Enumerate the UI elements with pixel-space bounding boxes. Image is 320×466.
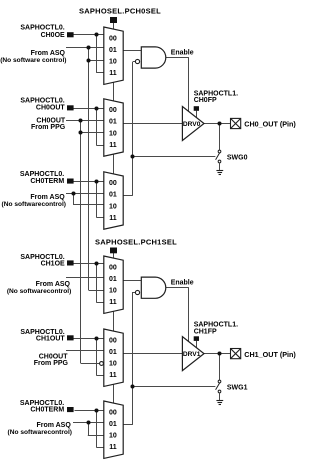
svg-text:10: 10	[109, 288, 117, 295]
svg-text:10: 10	[109, 59, 117, 66]
svg-text:00: 00	[109, 409, 117, 416]
svg-text:11: 11	[109, 215, 117, 222]
svg-text:10: 10	[109, 433, 117, 440]
svg-text:(No softwarecontrol): (No softwarecontrol)	[7, 288, 71, 295]
svg-text:11: 11	[109, 299, 117, 306]
svg-text:CH1_OUT (Pin): CH1_OUT (Pin)	[244, 350, 296, 359]
svg-text:From PPG: From PPG	[34, 360, 69, 367]
svg-text:CH1OE: CH1OE	[41, 260, 65, 267]
svg-text:From ASQ: From ASQ	[31, 50, 66, 57]
svg-text:01: 01	[109, 192, 117, 199]
svg-text:00: 00	[109, 337, 117, 344]
svg-text:CH0FP: CH0FP	[194, 97, 217, 104]
svg-text:(No software control): (No software control)	[0, 57, 66, 64]
svg-text:SWG1: SWG1	[227, 384, 248, 391]
svg-text:CH0TERM: CH0TERM	[30, 178, 64, 185]
svg-text:10: 10	[109, 361, 117, 368]
svg-text:00: 00	[109, 107, 117, 114]
svg-text:SWG0: SWG0	[227, 154, 248, 161]
svg-text:DRV1: DRV1	[183, 351, 201, 358]
svg-text:11: 11	[109, 70, 117, 77]
svg-text:01: 01	[109, 119, 117, 126]
svg-text:(No softwarecontrol): (No softwarecontrol)	[2, 201, 66, 208]
svg-text:00: 00	[109, 35, 117, 42]
svg-text:Enable: Enable	[171, 280, 194, 287]
svg-text:01: 01	[109, 421, 117, 428]
svg-text:(No softwarecontrol): (No softwarecontrol)	[8, 429, 72, 436]
svg-text:CH1OUT: CH1OUT	[36, 336, 66, 343]
svg-text:From ASQ: From ASQ	[36, 281, 71, 288]
svg-text:01: 01	[109, 276, 117, 283]
svg-text:SAPHOCTL0.: SAPHOCTL0.	[20, 98, 64, 105]
svg-text:From PPG: From PPG	[31, 124, 66, 131]
svg-text:10: 10	[109, 130, 117, 137]
svg-text:CH0TERM: CH0TERM	[30, 406, 64, 413]
svg-text:11: 11	[109, 372, 117, 379]
svg-text:00: 00	[109, 264, 117, 271]
svg-text:01: 01	[109, 349, 117, 356]
svg-text:SAPHOSEL.PCH1SEL: SAPHOSEL.PCH1SEL	[95, 238, 177, 247]
svg-text:SAPHOSEL.PCH0SEL: SAPHOSEL.PCH0SEL	[79, 6, 161, 15]
svg-text:SAPHOCTL0.: SAPHOCTL0.	[20, 25, 64, 32]
svg-text:CH1FP: CH1FP	[194, 328, 217, 335]
svg-text:DRV0: DRV0	[183, 121, 201, 128]
svg-text:10: 10	[109, 203, 117, 210]
svg-text:01: 01	[109, 47, 117, 54]
svg-text:CH0OE: CH0OE	[41, 32, 65, 39]
svg-text:From ASQ: From ASQ	[30, 194, 65, 201]
svg-text:SAPHOCTL0.: SAPHOCTL0.	[20, 171, 64, 178]
svg-text:Enable: Enable	[171, 49, 194, 56]
svg-text:11: 11	[109, 444, 117, 451]
svg-text:CH0_OUT (Pin): CH0_OUT (Pin)	[244, 119, 296, 128]
svg-text:CH0OUT: CH0OUT	[36, 105, 66, 112]
svg-text:00: 00	[109, 180, 117, 187]
svg-text:11: 11	[109, 142, 117, 149]
